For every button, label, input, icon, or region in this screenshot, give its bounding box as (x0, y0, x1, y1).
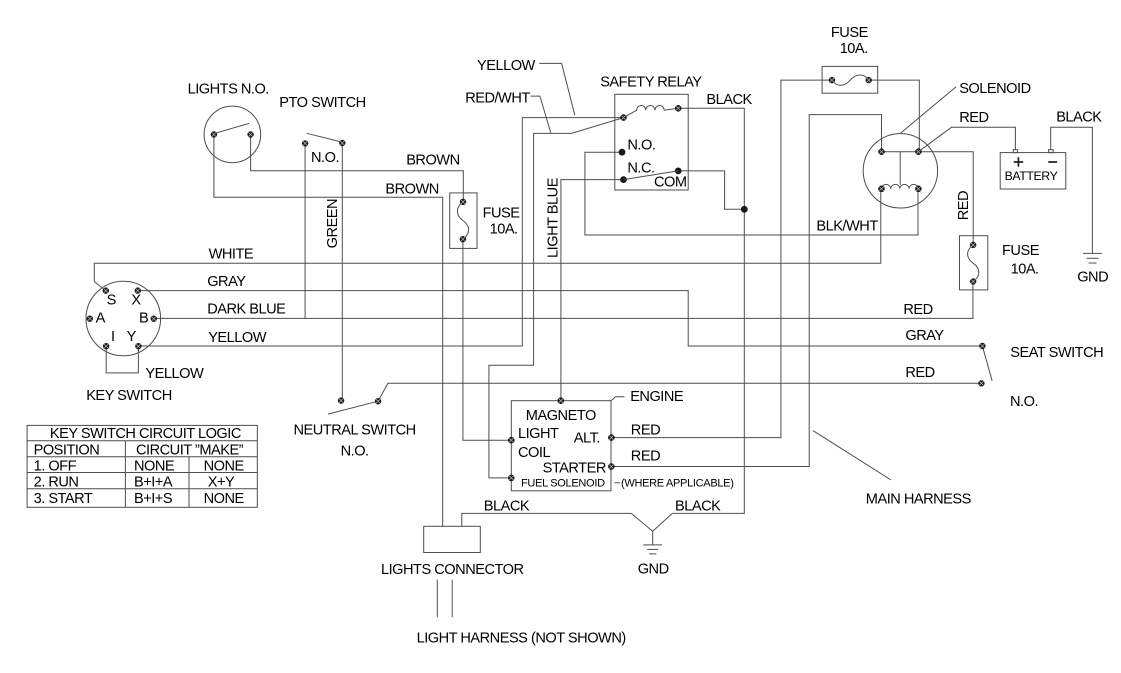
svg-text:I: I (111, 329, 115, 345)
fuse F1 10A (lights) (450, 193, 477, 249)
svg-text:PTO SWITCH: PTO SWITCH (279, 95, 365, 111)
svg-text:X: X (131, 292, 141, 308)
label MAIN HARNESS with leader (813, 431, 891, 480)
wire BROWN (lights switch right to fuse) (251, 135, 464, 202)
svg-text:COM: COM (654, 174, 687, 190)
svg-text:BLK/WHT: BLK/WHT (816, 219, 878, 235)
svg-text:(WHERE APPLICABLE): (WHERE APPLICABLE) (621, 477, 734, 489)
key switch circuit logic table (27, 425, 257, 507)
key switch (86, 281, 161, 356)
svg-text:B: B (139, 311, 148, 327)
svg-text:FUSE: FUSE (831, 25, 869, 41)
svg-text:RED: RED (903, 302, 932, 318)
svg-text:LIGHT HARNESS (NOT SHOWN): LIGHT HARNESS (NOT SHOWN) (417, 631, 626, 647)
wire BLACK (lights connector to engine ground) (462, 513, 653, 531)
svg-text:BROWN: BROWN (406, 152, 459, 168)
magneto (engine) box (508, 397, 615, 490)
svg-text:RED/WHT: RED/WHT (465, 90, 530, 106)
wire neutral switch to seat switch (378, 383, 981, 401)
svg-text:RED: RED (959, 110, 988, 126)
svg-text:FUSE: FUSE (483, 206, 521, 222)
svg-text:RED: RED (631, 449, 660, 465)
svg-text:LIGHT BLUE: LIGHT BLUE (545, 177, 561, 258)
svg-text:BLACK: BLACK (675, 499, 721, 515)
svg-text:BLACK: BLACK (484, 499, 530, 515)
label (WHERE APPLICABLE) with tick (614, 482, 620, 484)
wire WHITE (key switch S to solenoid coil left) (94, 189, 881, 291)
fuse F3 10A (right) (960, 236, 988, 290)
wire DARK BLUE drop (PTO switch to dark blue wire) (304, 143, 306, 318)
svg-text:N.O.: N.O. (341, 444, 369, 460)
svg-text:POSITION: POSITION (34, 442, 100, 458)
svg-text:BATTERY: BATTERY (1005, 169, 1058, 183)
svg-text:10A.: 10A. (840, 41, 868, 57)
svg-text:FUEL SOLENOID: FUEL SOLENOID (521, 477, 605, 489)
ground (battery GND) (1083, 253, 1102, 263)
wire fuse to magneto light coil (463, 239, 511, 440)
svg-text:STARTER: STARTER (543, 461, 606, 477)
svg-text:SOLENOID: SOLENOID (959, 81, 1030, 97)
svg-text:NEUTRAL SWITCH: NEUTRAL SWITCH (294, 423, 416, 439)
svg-text:RED: RED (956, 191, 972, 220)
svg-text:NONE: NONE (134, 459, 175, 475)
svg-text:GND: GND (638, 561, 669, 577)
svg-text:RED: RED (905, 365, 934, 381)
safety relay U1 (615, 94, 688, 190)
svg-text:BLACK: BLACK (1056, 109, 1102, 125)
svg-text:B+I+S: B+I+S (134, 491, 173, 507)
ground (engine GND) (643, 545, 662, 554)
wire GREEN (PTO switch to neutral switch) (341, 143, 343, 401)
svg-text:10A.: 10A. (490, 221, 518, 237)
svg-text:KEY SWITCH CIRCUIT LOGIC: KEY SWITCH CIRCUIT LOGIC (50, 426, 241, 442)
svg-text:A: A (96, 311, 106, 327)
svg-text:N.O.: N.O. (627, 138, 655, 154)
wire YELLOW (key switch Y to safety relay coil) (138, 118, 623, 346)
wire RED/WHT (relay coil to magneto fuel solenoid) (489, 118, 624, 478)
junction (black wire) (741, 206, 748, 213)
wire starter (solenoid to magneto STARTER) (611, 115, 881, 467)
svg-text:BROWN: BROWN (385, 181, 438, 197)
wire LIGHT BLUE (relay COM to magneto kill terminal) (561, 180, 624, 401)
battery B1 (1000, 150, 1066, 189)
svg-text:COIL: COIL (518, 445, 550, 461)
wire solenoid to right fuse (918, 152, 973, 245)
svg-text:N.O.: N.O. (1010, 394, 1038, 410)
wire BLACK (relay coil to engine ground) (653, 108, 745, 545)
svg-text:ENGINE: ENGINE (630, 389, 684, 405)
wire GRAY (key switch X to seat switch) (138, 291, 983, 346)
svg-text:GREEN: GREEN (325, 199, 341, 248)
svg-text:N.O.: N.O. (311, 150, 339, 166)
svg-text:GRAY: GRAY (207, 274, 246, 290)
svg-text:S: S (107, 292, 117, 308)
svg-text:YELLOW: YELLOW (477, 58, 536, 74)
svg-text:WHITE: WHITE (209, 247, 254, 263)
svg-text:N.C.: N.C. (627, 161, 654, 177)
svg-text:NONE: NONE (204, 491, 245, 507)
pto switch (302, 133, 346, 146)
svg-text:YELLOW: YELLOW (208, 330, 267, 346)
seat switch (978, 343, 992, 387)
svg-text:FUSE: FUSE (1002, 243, 1040, 259)
wire BLACK battery negative to ground (1051, 127, 1093, 253)
wire RED / DARK BLUE (battery fuse to key switch B) (154, 282, 973, 319)
wire RED (top fuse to magneto ALT) (611, 80, 832, 438)
svg-text:LIGHTS CONNECTOR: LIGHTS CONNECTOR (381, 562, 524, 578)
svg-text:2. RUN: 2. RUN (34, 475, 79, 491)
svg-text:BLACK: BLACK (706, 92, 752, 108)
solenoid (863, 134, 937, 208)
svg-text:SAFETY RELAY: SAFETY RELAY (600, 75, 702, 91)
svg-text:3. START: 3. START (34, 491, 93, 507)
fuse F2 10A (charging, top) (822, 66, 878, 93)
svg-text:LIGHTS N.O.: LIGHTS N.O. (188, 81, 269, 97)
wire top fuse to solenoid (869, 80, 920, 152)
wire relay N.C. to black junction (678, 171, 744, 209)
svg-text:RED: RED (631, 423, 660, 439)
svg-text:CIRCUIT ”MAKE”: CIRCUIT ”MAKE” (136, 442, 244, 458)
lights connector (424, 526, 481, 617)
wire yellow jumper I-Y (106, 346, 138, 373)
svg-text:MAIN HARNESS: MAIN HARNESS (866, 491, 972, 507)
svg-text:10A.: 10A. (1011, 262, 1039, 278)
svg-text:X+Y: X+Y (208, 475, 235, 491)
svg-text:GRAY: GRAY (905, 328, 944, 344)
svg-text:LIGHT: LIGHT (518, 426, 559, 442)
svg-text:Y: Y (127, 329, 137, 345)
svg-text:SEAT SWITCH: SEAT SWITCH (1010, 345, 1103, 361)
svg-text:1. OFF: 1. OFF (34, 459, 77, 475)
svg-text:MAGNETO: MAGNETO (526, 408, 596, 424)
wire BROWN (lights switch left to lights connector) (214, 135, 443, 527)
neutral switch (328, 397, 381, 414)
svg-text:DARK BLUE: DARK BLUE (207, 302, 286, 318)
lights switch (LIGHTS N.O.) (204, 106, 261, 163)
svg-text:GND: GND (1077, 269, 1108, 285)
svg-text:YELLOW: YELLOW (145, 366, 204, 382)
svg-text:B+I+A: B+I+A (134, 475, 173, 491)
svg-text:NONE: NONE (204, 459, 245, 475)
wire RED battery positive (918, 127, 1015, 151)
svg-text:KEY SWITCH: KEY SWITCH (86, 388, 172, 404)
svg-text:ALT.: ALT. (574, 430, 600, 446)
wire BLK/WHT (relay N.O. to solenoid coil right) (585, 152, 918, 235)
